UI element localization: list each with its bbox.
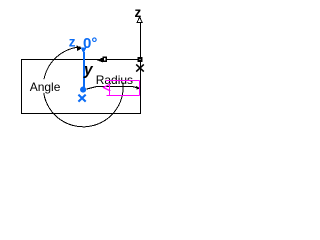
rectangle profile (22, 60, 141, 114)
Radius label background (95, 73, 131, 85)
X marker (black) below corner (136, 64, 144, 71)
svg-text:y: y (83, 62, 94, 79)
z axis vertical line (black) (140, 22, 142, 57)
magenta open arrowhead (103, 84, 110, 91)
magenta highlight box bottom line (106, 95, 139, 97)
blue axis line (83, 52, 85, 88)
svg-text:z: z (135, 5, 142, 20)
radius dimension line (87, 87, 137, 89)
blue X marker (78, 95, 85, 102)
angle direction arrowhead on circle (77, 45, 82, 51)
blue center dot (80, 87, 86, 93)
circle (43, 47, 123, 127)
magenta highlight box right line (139, 81, 141, 96)
magenta highlight box top line (106, 80, 140, 82)
top-edge marker: left-pointing arrow (97, 58, 103, 63)
Angle label background (29, 79, 60, 93)
svg-text:Angle: Angle (30, 80, 61, 94)
z axis open arrowhead (up) (137, 17, 142, 23)
radius dimension arrowhead (right) (136, 86, 140, 90)
top-edge marker: open square (103, 57, 106, 61)
blue down arrowhead at axis top (81, 47, 87, 53)
svg-text:z: z (69, 35, 76, 50)
magenta box left vertical (109, 84, 111, 96)
corner square marker (138, 57, 143, 62)
svg-text:Radius: Radius (96, 73, 133, 87)
